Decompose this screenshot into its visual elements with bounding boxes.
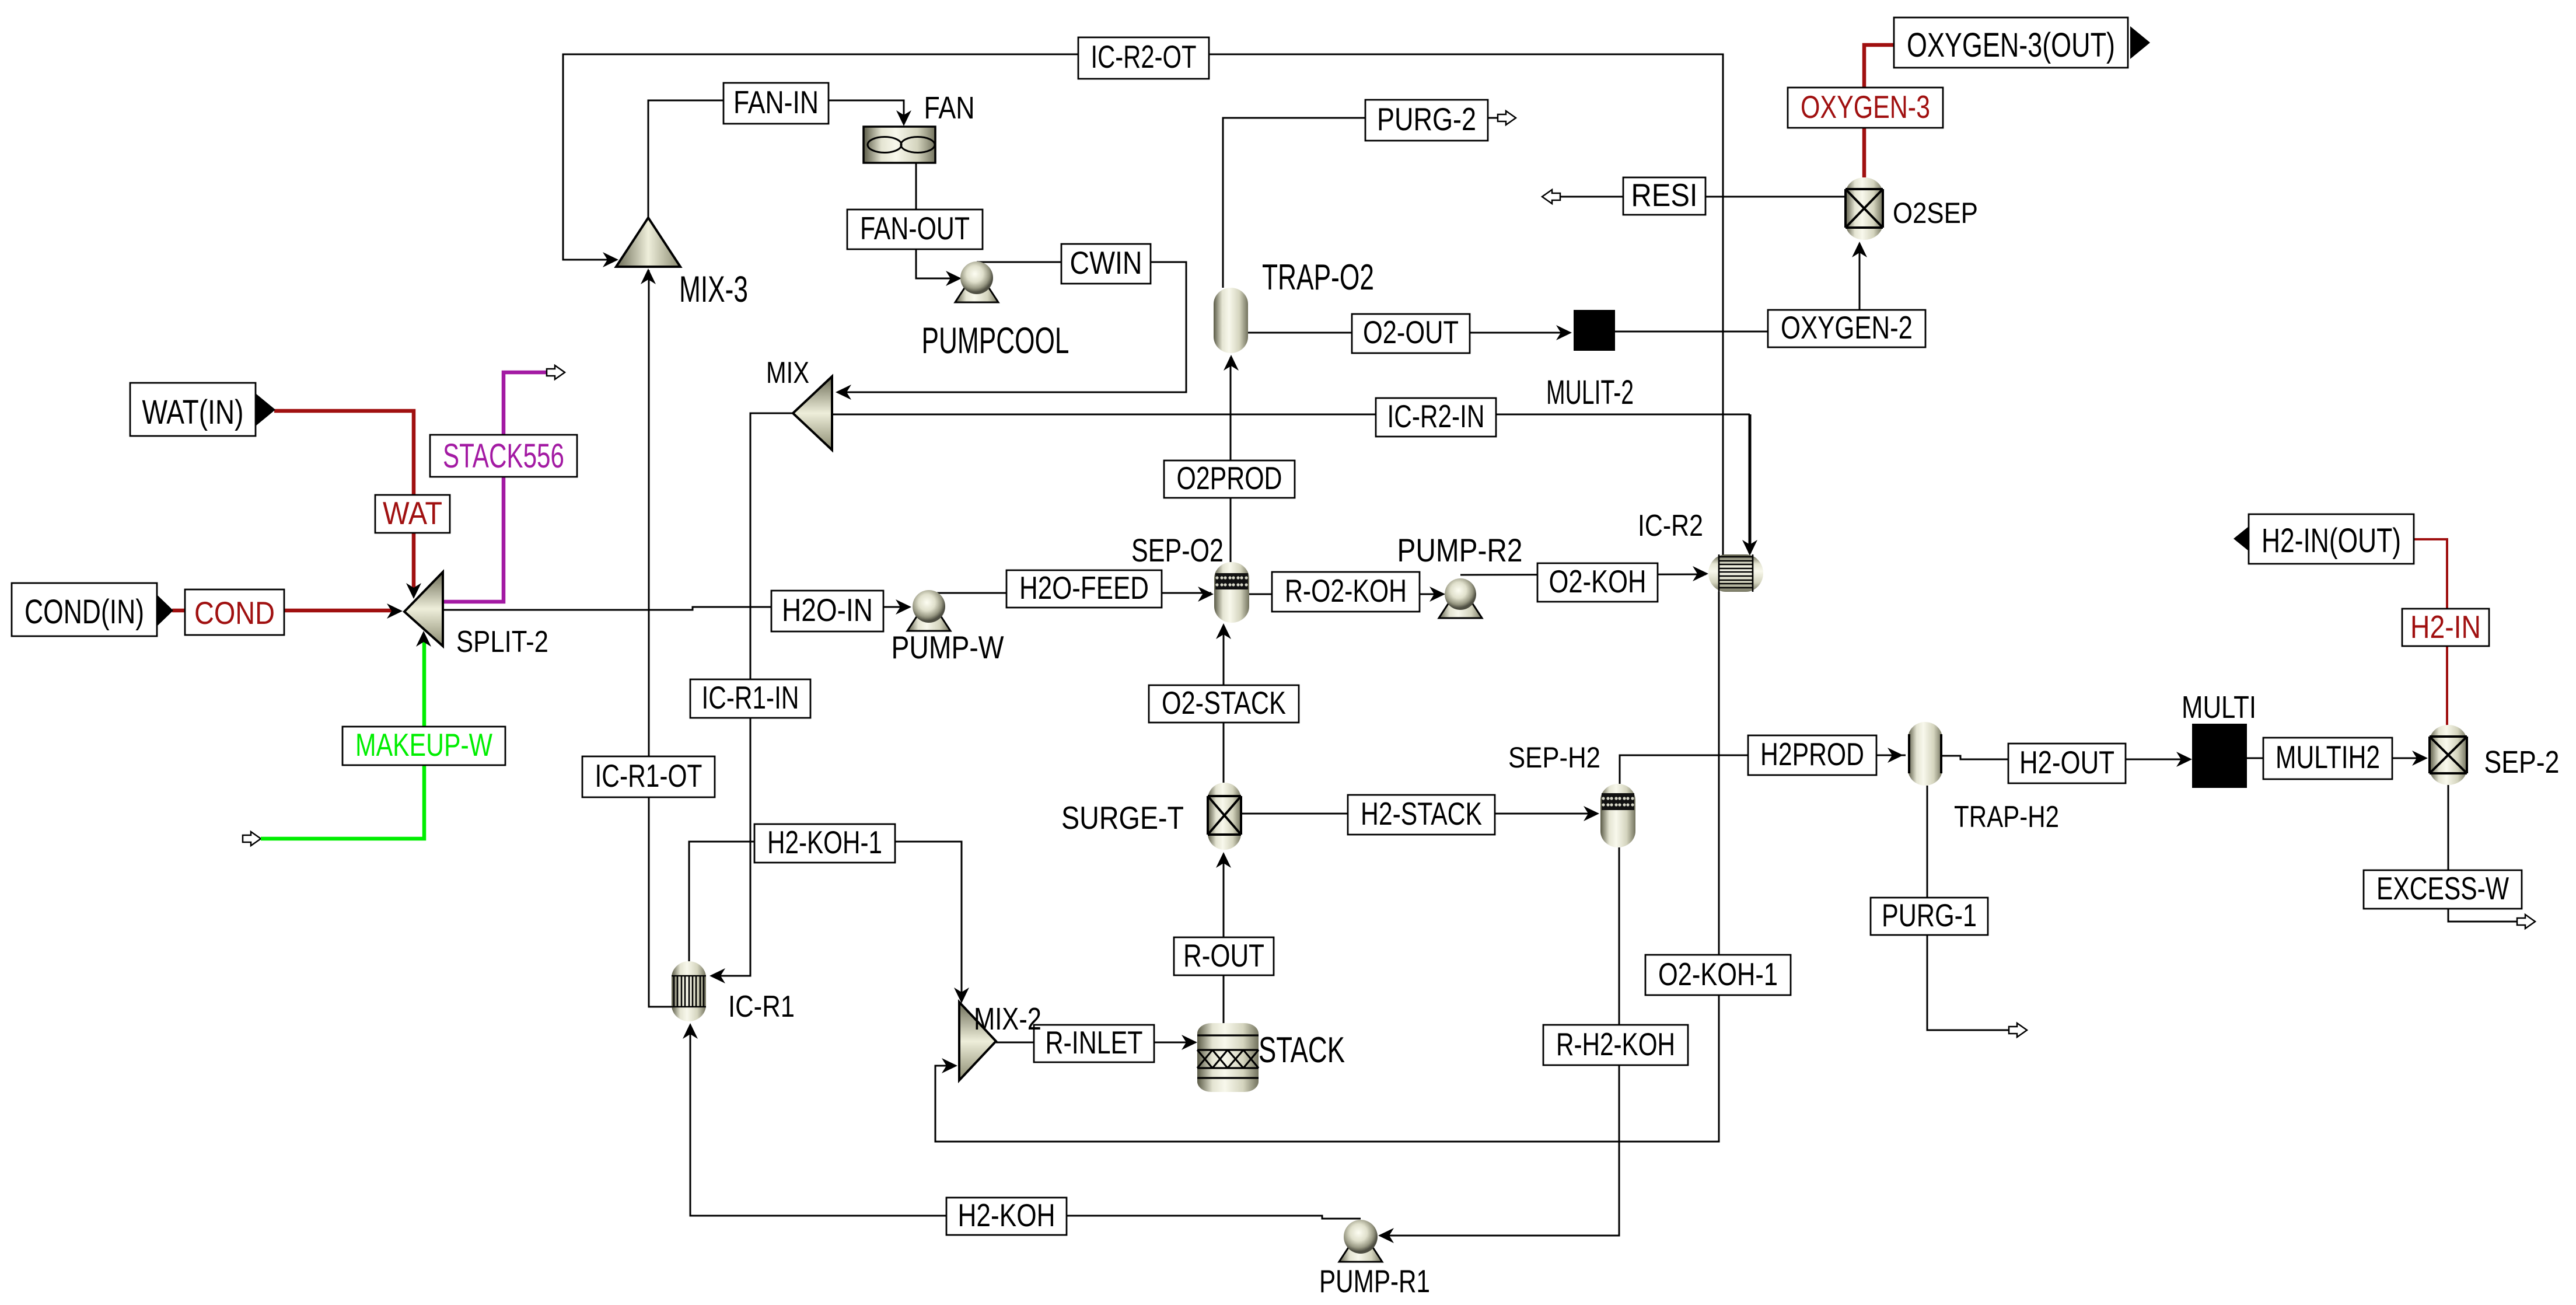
- svg-text:IC-R1: IC-R1: [728, 990, 795, 1024]
- svg-text:SURGE-T: SURGE-T: [1061, 800, 1184, 836]
- svg-text:SEP-O2: SEP-O2: [1131, 532, 1224, 568]
- svg-text:R-O2-KOH: R-O2-KOH: [1285, 573, 1407, 609]
- svg-text:H2-OUT: H2-OUT: [2019, 744, 2114, 780]
- svg-text:O2PROD: O2PROD: [1177, 460, 1282, 496]
- svg-text:FAN-OUT: FAN-OUT: [860, 210, 970, 246]
- svg-text:OXYGEN-3: OXYGEN-3: [1801, 89, 1930, 125]
- svg-text:O2SEP: O2SEP: [1893, 197, 1978, 229]
- svg-text:R-OUT: R-OUT: [1183, 937, 1264, 973]
- svg-text:O2-OUT: O2-OUT: [1363, 314, 1459, 350]
- svg-text:H2O-IN: H2O-IN: [782, 592, 873, 628]
- svg-text:PUMP-R2: PUMP-R2: [1397, 532, 1523, 568]
- svg-text:IC-R2: IC-R2: [1638, 509, 1703, 543]
- svg-text:TRAP-H2: TRAP-H2: [1954, 800, 2059, 834]
- svg-text:PUMP-W: PUMP-W: [892, 629, 1004, 665]
- svg-text:O2-KOH-1: O2-KOH-1: [1658, 956, 1778, 992]
- svg-text:PUMP-R1: PUMP-R1: [1319, 1263, 1430, 1299]
- svg-text:FAN: FAN: [924, 90, 975, 125]
- svg-text:H2-KOH: H2-KOH: [958, 1197, 1055, 1233]
- svg-text:IC-R2-OT: IC-R2-OT: [1091, 39, 1197, 75]
- svg-text:H2-KOH-1: H2-KOH-1: [767, 824, 882, 860]
- svg-text:PURG-2: PURG-2: [1377, 101, 1476, 137]
- svg-text:SPLIT-2: SPLIT-2: [456, 625, 548, 659]
- svg-text:FAN-IN: FAN-IN: [733, 84, 819, 120]
- svg-text:COND(IN): COND(IN): [25, 593, 144, 631]
- svg-text:CWIN: CWIN: [1070, 245, 1142, 281]
- svg-text:STACK: STACK: [1259, 1030, 1345, 1070]
- svg-text:MAKEUP-W: MAKEUP-W: [355, 727, 492, 763]
- svg-text:MIX-3: MIX-3: [679, 269, 748, 310]
- svg-text:RESI: RESI: [1631, 177, 1698, 213]
- svg-text:EXCESS-W: EXCESS-W: [2376, 870, 2509, 906]
- svg-text:OXYGEN-3(OUT): OXYGEN-3(OUT): [1907, 26, 2115, 64]
- svg-text:IC-R1-IN: IC-R1-IN: [702, 679, 799, 716]
- svg-text:R-INLET: R-INLET: [1046, 1024, 1143, 1060]
- svg-text:PUMPCOOL: PUMPCOOL: [922, 320, 1069, 361]
- svg-text:H2-IN: H2-IN: [2410, 609, 2481, 645]
- svg-text:MULTIH2: MULTIH2: [2276, 739, 2380, 775]
- svg-text:WAT(IN): WAT(IN): [142, 393, 244, 431]
- svg-text:H2-IN(OUT): H2-IN(OUT): [2262, 522, 2401, 560]
- svg-text:SEP-H2: SEP-H2: [1508, 741, 1600, 774]
- svg-text:H2-STACK: H2-STACK: [1361, 795, 1482, 832]
- svg-text:MIX: MIX: [766, 356, 809, 390]
- svg-text:OXYGEN-2: OXYGEN-2: [1781, 309, 1913, 346]
- svg-text:STACK556: STACK556: [443, 437, 564, 475]
- svg-text:IC-R1-OT: IC-R1-OT: [595, 758, 702, 794]
- svg-text:MIX-2: MIX-2: [974, 1002, 1041, 1037]
- svg-text:MULTI: MULTI: [2182, 690, 2256, 725]
- svg-text:SEP-2: SEP-2: [2484, 745, 2560, 780]
- svg-text:WAT: WAT: [383, 495, 442, 531]
- svg-text:MULIT-2: MULIT-2: [1546, 374, 1634, 411]
- svg-text:O2-KOH: O2-KOH: [1549, 563, 1647, 599]
- svg-text:TRAP-O2: TRAP-O2: [1262, 257, 1374, 298]
- svg-text:COND: COND: [194, 595, 275, 631]
- svg-text:PURG-1: PURG-1: [1882, 897, 1977, 933]
- svg-text:R-H2-KOH: R-H2-KOH: [1556, 1026, 1675, 1062]
- svg-text:O2-STACK: O2-STACK: [1162, 685, 1286, 721]
- svg-text:H2O-FEED: H2O-FEED: [1019, 570, 1149, 606]
- svg-text:IC-R2-IN: IC-R2-IN: [1387, 398, 1485, 434]
- svg-text:H2PROD: H2PROD: [1760, 736, 1864, 772]
